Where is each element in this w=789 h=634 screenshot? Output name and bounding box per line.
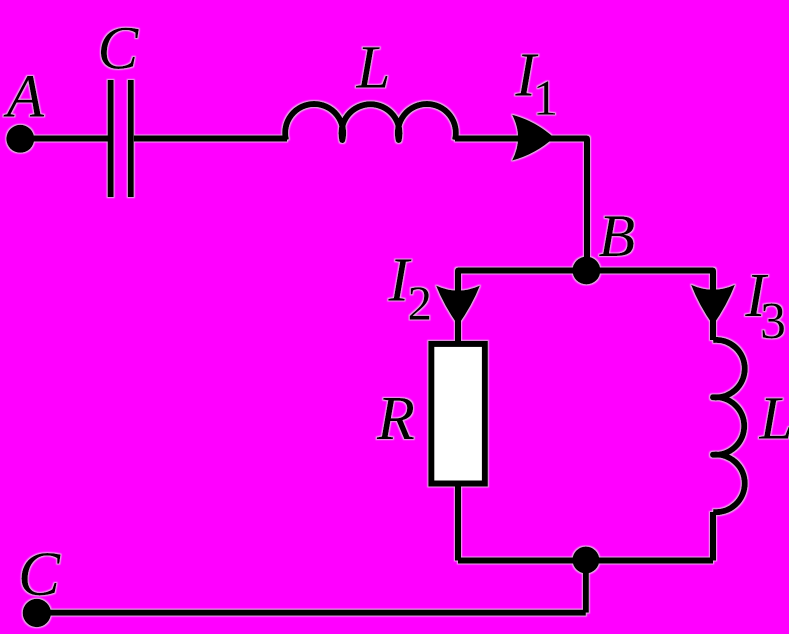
wire node A to capacitor (20, 136, 108, 142)
svg-text:R: R (376, 385, 415, 453)
label I3 (744, 262, 786, 350)
node B (572, 257, 600, 285)
arrow I1 (512, 115, 554, 161)
arrow I2 (436, 286, 480, 326)
node A (6, 125, 34, 153)
svg-text:2: 2 (408, 276, 433, 331)
svg-text:L: L (759, 386, 789, 453)
label I2 (388, 247, 433, 331)
wire node B to inductor (right branch) (586, 271, 713, 341)
wire lower rail to node C (37, 610, 586, 616)
node C (23, 599, 51, 627)
svg-text:1: 1 (533, 69, 558, 125)
bottom node (572, 547, 599, 574)
wire capacitor to inductor L (134, 136, 287, 142)
svg-text:A: A (3, 63, 45, 130)
svg-text:3: 3 (760, 293, 786, 350)
inductor L (top, horizontal) (285, 104, 456, 140)
svg-text:C: C (98, 15, 140, 82)
svg-text:L: L (356, 35, 391, 102)
inductor L (right, vertical) (713, 340, 745, 512)
resistor R (431, 344, 485, 484)
wire node B to resistor (left branch) (458, 271, 586, 342)
wire bottom node down to lower rail (583, 560, 589, 613)
svg-text:C: C (18, 539, 61, 609)
capacitor C (111, 80, 131, 197)
label I1 (514, 41, 558, 125)
bottom wire (458, 558, 713, 564)
wire inductor to node B (455, 139, 587, 271)
svg-text:B: B (599, 203, 636, 269)
wire resistor to bottom wire (455, 484, 461, 561)
wire inductor to bottom wire (710, 512, 716, 561)
arrow I3 (691, 285, 735, 326)
